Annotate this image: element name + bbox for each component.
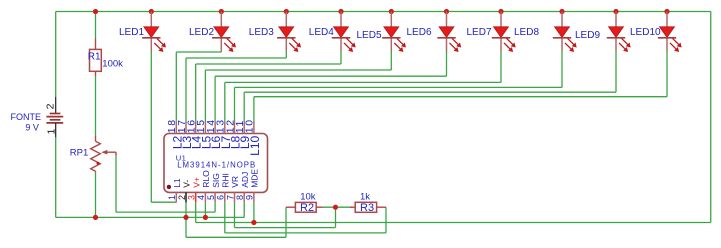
svg-text:LED5: LED5 <box>357 30 382 41</box>
LED9 cathode lead <box>615 39 617 52</box>
LED7 emission arrows <box>504 38 516 52</box>
potentiometer RP1: top lead <box>95 135 97 141</box>
LED5 cathode lead <box>390 39 392 52</box>
resistor R2 body <box>295 202 316 212</box>
wire: LED1 cathode drop <box>150 51 152 202</box>
wire: LED3 horizontal to pin L3 column <box>186 57 286 59</box>
LED6: anode lead <box>446 12 448 28</box>
svg-text:LED6: LED6 <box>407 27 432 38</box>
svg-text:LED8: LED8 <box>514 27 539 38</box>
resistor R2 right lead <box>316 206 323 208</box>
LED8: anode lead <box>561 12 563 28</box>
LED10: anode lead <box>666 12 668 28</box>
wire: column down into IC pin L4 <box>195 64 197 122</box>
LED3 cathode lead <box>285 39 287 52</box>
U1 bottom pin stub (pin 1) <box>175 192 177 202</box>
svg-text:LM3914N-1/NOPB: LM3914N-1/NOPB <box>177 160 256 169</box>
LED1 triangle <box>144 27 159 37</box>
LED5 emission arrows <box>394 38 406 52</box>
wire: pin 3 (V+) drop to V+ line <box>195 202 197 222</box>
wire: LED5 cathode drop <box>390 51 392 70</box>
svg-text:3: 3 <box>187 195 197 200</box>
potentiometer RP1 wiper arrow <box>101 150 107 155</box>
potentiometer RP1 bottom lead <box>95 171 97 172</box>
svg-text:9 V: 9 V <box>25 123 39 133</box>
U1 top pin stub (pin 15) <box>204 122 206 134</box>
wire: LED6 horizontal to pin L6 column <box>215 75 446 77</box>
svg-text:RLO: RLO <box>201 170 211 188</box>
svg-text:1: 1 <box>167 195 177 200</box>
wire: column down into IC pin L6 <box>214 76 216 122</box>
wire: LED7 horizontal to pin L7 column <box>225 81 501 83</box>
LED3 triangle <box>279 27 294 37</box>
svg-text:L1: L1 <box>172 178 182 188</box>
LED6 cathode lead <box>446 39 448 52</box>
svg-text:10k: 10k <box>300 192 316 203</box>
junction dot: LED3 at top rail <box>284 9 289 14</box>
wire: +9V top rail <box>56 11 711 13</box>
svg-text:SIG: SIG <box>211 173 221 188</box>
U1 top pin stub (pin 17) <box>185 122 187 134</box>
resistor R3 1k: left lead <box>350 206 355 208</box>
svg-text:5: 5 <box>206 195 216 200</box>
wire: LED8 cathode drop <box>561 51 563 87</box>
LED1 emission arrows <box>154 38 166 52</box>
wire: column down into IC pin L5 <box>204 70 206 122</box>
wire: right-side V+ return vertical <box>710 12 712 223</box>
svg-text:10: 10 <box>244 118 256 133</box>
resistor R1 bottom lead <box>95 71 97 76</box>
junction dot: LED6 at top rail <box>444 9 449 14</box>
svg-text:R2: R2 <box>300 202 314 214</box>
LED3 cathode bar <box>277 37 295 39</box>
U1 top pin stub (pin 18) <box>175 122 177 134</box>
LED10 emission arrows <box>670 38 682 52</box>
junction dot: LED1 at top rail <box>149 9 154 14</box>
svg-text:FONTE: FONTE <box>11 112 42 122</box>
LED4 cathode lead <box>340 39 342 52</box>
wire: battery negative down to ground rail <box>55 137 57 217</box>
LED1 cathode bar <box>142 37 160 39</box>
wire: LED10 horizontal to pin L10 column <box>254 96 667 98</box>
junction dot: LED9 at top rail <box>613 9 618 14</box>
svg-text:9: 9 <box>245 195 255 200</box>
svg-text:R3: R3 <box>360 202 374 214</box>
svg-text:LED2: LED2 <box>189 27 214 38</box>
LED5: anode lead <box>390 12 392 28</box>
junction dot: LED7 at top rail <box>498 9 503 14</box>
LED7 cathode lead <box>500 39 502 52</box>
battery negative lead <box>55 123 57 137</box>
wire: RP1 wiper down to SIG line <box>115 156 117 212</box>
U1 bottom pin stub (pin 4) <box>204 192 206 202</box>
svg-text:LED3: LED3 <box>249 27 274 38</box>
potentiometer RP1 zigzag body <box>91 141 101 171</box>
resistor R3 right lead <box>377 206 386 208</box>
wire: LED6 cathode drop <box>446 51 448 76</box>
LED8 triangle <box>555 27 570 37</box>
svg-text:100k: 100k <box>102 59 123 70</box>
junction dot: pin 2 at ground rail <box>183 215 188 220</box>
svg-text:LED1: LED1 <box>119 27 144 38</box>
wire: column down into IC pin L9 <box>243 92 245 122</box>
wire: battery positive to top rail <box>55 12 57 98</box>
LED2 emission arrows <box>224 38 236 52</box>
U1 top pin stub (pin 12) <box>234 122 236 134</box>
wire: pin 4 (RLO) drop to ground rail <box>204 202 206 217</box>
wire: SIG line to pin 5 <box>116 211 215 213</box>
LED6 emission arrows <box>450 38 462 52</box>
wire: R2 left lead line (ground branch) <box>186 236 286 238</box>
LED8 cathode bar <box>553 37 571 39</box>
wire: column down into IC pin L8 <box>234 87 236 122</box>
LED7 triangle <box>494 27 509 37</box>
wire: LED8 horizontal to pin L8 column <box>235 86 563 88</box>
wire: node line to R2/R3 junction riser <box>235 227 336 229</box>
wire: R2 left riser <box>285 207 287 237</box>
wire: V+ return bottom horizontal to pin 3 <box>196 222 711 224</box>
junction dot: R1 at top rail <box>93 9 98 14</box>
wire: R1 top to rail <box>95 12 97 39</box>
resistor R1 body <box>90 49 102 71</box>
wire: ground rail <box>56 216 245 218</box>
LED9 triangle <box>609 27 624 37</box>
svg-text:LED10: LED10 <box>630 27 661 38</box>
LED3 emission arrows <box>289 38 301 52</box>
potentiometer RP1 wiper mark dot <box>97 162 100 165</box>
LED2 triangle <box>214 27 229 37</box>
LED8 cathode lead <box>561 39 563 52</box>
wire: LED4 horizontal to pin L4 column <box>196 63 341 65</box>
wire: LED9 horizontal to pin L9 column <box>244 91 616 93</box>
svg-text:LED7: LED7 <box>467 27 492 38</box>
svg-text:1: 1 <box>46 129 58 135</box>
wire: LED5 horizontal to pin L5 column <box>205 69 391 71</box>
LED8 emission arrows <box>565 38 577 52</box>
LED3: anode lead <box>285 12 287 28</box>
LED5 triangle <box>384 27 399 37</box>
U1 top pin stub (pin 14) <box>214 122 216 134</box>
LED2 cathode bar <box>212 37 230 39</box>
svg-text:ADJ: ADJ <box>240 172 250 188</box>
svg-text:8: 8 <box>235 195 245 200</box>
LED2 cathode lead <box>220 39 222 52</box>
svg-text:LED4: LED4 <box>309 27 334 38</box>
junction dot: LED2 at top rail <box>219 9 224 14</box>
LED6 cathode bar <box>437 37 455 39</box>
wire: pin 2 (V-) down to ground rail and R2-left line <box>185 202 187 237</box>
svg-text:2: 2 <box>45 103 57 109</box>
LED7 cathode bar <box>492 37 510 39</box>
battery plates <box>50 113 61 115</box>
svg-text:1k: 1k <box>360 192 370 203</box>
svg-text:V-: V- <box>182 180 192 188</box>
wire: LED9 cathode drop <box>615 51 617 92</box>
svg-text:VR: VR <box>230 176 240 188</box>
U1 top pin stub (pin 11) <box>243 122 245 134</box>
wire: pin 6 (RHI) drop to RHI line <box>224 202 226 233</box>
LED2: anode lead <box>220 12 222 28</box>
svg-text:R1: R1 <box>88 51 101 62</box>
wire: column down into IC pin L2 <box>175 52 177 122</box>
wire: R1 bottom to RP1 top <box>95 76 97 135</box>
junction dot: pin 9 at V+ line <box>251 220 256 225</box>
U1 top pin stub (pin 13) <box>224 122 226 134</box>
LED4 emission arrows <box>344 38 356 52</box>
U1 bottom pin stub (pin 7) <box>234 192 236 202</box>
svg-text:V+: V+ <box>191 177 201 188</box>
junction dot: pin 4 at ground rail <box>203 215 208 220</box>
junction dot: LED8 at top rail <box>559 9 564 14</box>
LED9 cathode bar <box>607 37 625 39</box>
svg-text:RHI: RHI <box>221 173 231 188</box>
U1 bottom pin stub (pin 2) <box>185 192 187 202</box>
U1 pin 1 marker dot <box>167 185 171 189</box>
LED5 cathode bar <box>382 37 400 39</box>
LED10 cathode bar <box>658 37 676 39</box>
svg-text:RP1: RP1 <box>70 148 88 159</box>
wire: column down into IC pin L7 <box>224 82 226 122</box>
U1 bottom pin stub (pin 9) <box>253 192 255 202</box>
LED1 cathode lead <box>150 39 152 52</box>
wire: LED3 cathode drop <box>285 51 287 58</box>
wire: R2/R3 junction riser <box>335 207 337 227</box>
U1 bottom pin stub (pin 5) <box>214 192 216 202</box>
svg-text:6: 6 <box>216 195 226 200</box>
resistor R1 100k: top lead <box>95 39 97 50</box>
wire: LED2 cathode drop <box>220 51 222 52</box>
resistor R2 10k: left lead <box>286 206 295 208</box>
U1 top pin stub (pin 16) <box>195 122 197 134</box>
U1 bottom pin stub (pin 8) <box>243 192 245 202</box>
wire: pin 9 (MDE) drop to V+ line <box>253 202 255 222</box>
junction dot: RP1 at ground rail <box>93 215 98 220</box>
LED10 triangle <box>660 27 675 37</box>
wire: LED4 cathode drop <box>340 51 342 64</box>
resistor R3 body <box>355 202 376 212</box>
junction dot: LED10 at top rail <box>664 9 669 14</box>
LED1: anode lead <box>150 12 152 28</box>
LED6 triangle <box>439 27 454 37</box>
wire: pin 5 drop to SIG line <box>214 202 216 212</box>
U1 bottom pin stub (pin 6) <box>224 192 226 202</box>
wire: pin 7 (VR) drop to node line <box>234 202 236 227</box>
wire: column down into IC pin L3 <box>185 58 187 122</box>
LED9 emission arrows <box>619 38 631 52</box>
LED10 cathode lead <box>666 39 668 52</box>
svg-text:LED9: LED9 <box>575 30 600 41</box>
op-amp/driver U1 LM3914N-1/NOPB body <box>164 134 268 193</box>
battery V1 FONTE 9V: positive lead <box>55 97 57 114</box>
LED4 triangle <box>334 27 349 37</box>
wire: LED7 cathode drop <box>500 51 502 82</box>
LED7: anode lead <box>500 12 502 28</box>
junction dot: LED5 at top rail <box>389 9 394 14</box>
LED4 cathode bar <box>332 37 350 39</box>
svg-text:4: 4 <box>196 195 206 200</box>
wire: RHI line to R3 right riser <box>225 232 386 234</box>
svg-text:2: 2 <box>177 195 187 200</box>
svg-text:MDE: MDE <box>250 169 260 188</box>
wire: LED1 line to pin 1 <box>151 201 176 203</box>
wire: RP1 bottom to ground rail <box>95 172 97 217</box>
LED9: anode lead <box>615 12 617 28</box>
svg-text:L10: L10 <box>248 135 262 155</box>
wire: R2-R3 interconnect <box>323 206 353 208</box>
U1 bottom pin stub (pin 3) <box>195 192 197 202</box>
junction dot: LED4 at top rail <box>338 9 343 14</box>
wire: pin 1 stub to LED1 line <box>175 201 177 203</box>
wire: LED2 horizontal to pin L2 column <box>176 51 221 53</box>
wire: R3 right riser <box>385 207 387 233</box>
wire: ground rail rise into pin 8 (ADJ) <box>243 202 245 217</box>
LED4: anode lead <box>340 12 342 28</box>
svg-text:7: 7 <box>225 195 235 200</box>
wire: LED10 cathode drop <box>666 51 668 97</box>
U1 top pin stub (pin 10) <box>253 122 255 134</box>
junction dot: R2/R3 node <box>333 205 338 210</box>
wire: column down into IC pin L10 <box>253 97 255 123</box>
